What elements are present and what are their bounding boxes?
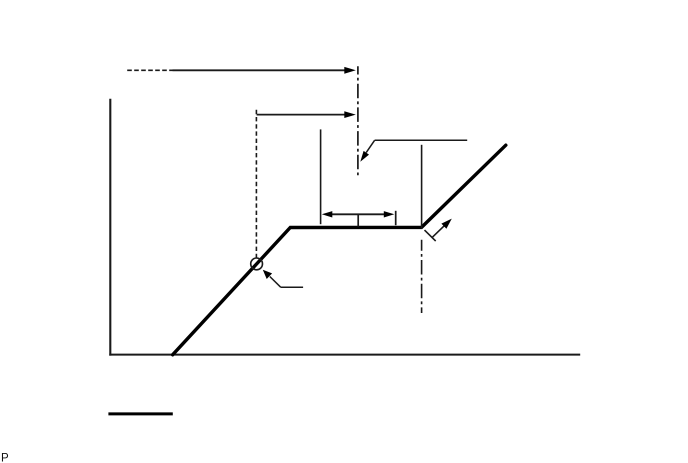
leader to centerline: slanted shaft bbox=[366, 140, 374, 152]
response curve (thick rise-plateau-rise line) bbox=[173, 145, 506, 355]
leader to circle: slanted shaft bbox=[270, 277, 281, 288]
extension line right (thin vertical at bend) bbox=[421, 145, 423, 229]
extension line left (thin vertical) bbox=[320, 129, 322, 224]
leader to circle: arrowhead bbox=[263, 270, 272, 279]
upper dimension arrow: arrowhead at centerline bbox=[344, 67, 356, 74]
span double arrow: shaft bbox=[331, 213, 386, 215]
span double arrow: right arrowhead bbox=[384, 211, 395, 217]
x-axis bbox=[109, 354, 580, 356]
upper dimension arrow: solid shaft bbox=[173, 69, 347, 71]
marker circle on rising segment bbox=[251, 258, 263, 270]
upper dimension arrow: dashed lead-in segment bbox=[127, 69, 172, 71]
vertical dash-dot centerline (upper) bbox=[357, 66, 359, 176]
dash-dot centerline below bend bbox=[421, 240, 423, 313]
leader to circle: horizontal bar bbox=[281, 286, 303, 288]
legend sample line bbox=[108, 412, 172, 415]
leader to centerline: horizontal bar bbox=[375, 139, 468, 141]
page label P bbox=[1, 452, 9, 463]
second dimension arrow: solid shaft bbox=[257, 114, 346, 116]
span double arrow: left arrowhead bbox=[322, 211, 333, 217]
vertical dashed projection line to circle bbox=[255, 110, 257, 258]
slope direction arrow: perpendicular base tick bbox=[425, 230, 436, 241]
second dimension arrow: arrowhead at centerline bbox=[344, 111, 356, 118]
slope direction arrow: arrowhead bbox=[441, 219, 451, 229]
y-axis bbox=[109, 99, 111, 356]
right boundary tick of double arrow bbox=[395, 211, 397, 225]
leader to centerline: arrowhead bbox=[360, 151, 369, 162]
slope direction arrow: shaft bbox=[432, 225, 446, 238]
centerline tick between arrow and plateau bbox=[357, 214, 359, 227]
svg-text:P: P bbox=[1, 452, 9, 463]
